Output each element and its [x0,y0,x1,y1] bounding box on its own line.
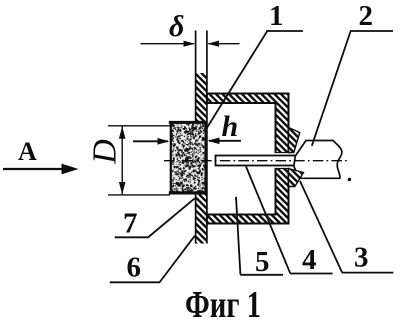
plate 6 (wall, hatched section) [196,31,208,244]
label 7 with leader [115,198,195,239]
svg-text:5: 5 [255,246,270,278]
gland lower wedge [289,169,304,187]
rod end piece 2 (cylinder with break line) [294,141,342,179]
dimension delta (plate thickness) [141,10,240,47]
label 6 with leader [110,236,195,284]
svg-text:1: 1 [269,0,284,32]
disc 7 (stippled block in plate hole) [169,121,208,195]
svg-text:2: 2 [359,0,374,32]
label 2 with leader [312,0,393,146]
center line (axis, dash-dot) [164,160,348,162]
stray dot [348,178,351,181]
label 4 with leader [246,167,333,277]
svg-text:Фиг 1: Фиг 1 [185,284,261,322]
label 3 with leader [300,181,393,274]
rod hole in right wall [275,153,290,169]
label 1 with leader [207,0,304,129]
view arrow A [3,137,79,174]
svg-text:6: 6 [127,252,142,284]
label 5 with leader [236,197,283,278]
svg-text:h: h [222,110,239,143]
svg-text:7: 7 [123,208,138,240]
rod 4 (stem through housing) [216,156,297,166]
svg-text:А: А [18,137,37,166]
dimension D (disc diameter) [87,126,171,195]
svg-text:δ: δ [169,10,184,43]
dimension h (disc thickness) [133,110,241,145]
housing 5 (box frame, hatched walls) [207,94,289,224]
svg-text:3: 3 [354,242,369,274]
gland upper wedge 3 [289,128,300,153]
svg-text:4: 4 [302,244,317,276]
svg-text:D: D [87,139,124,165]
